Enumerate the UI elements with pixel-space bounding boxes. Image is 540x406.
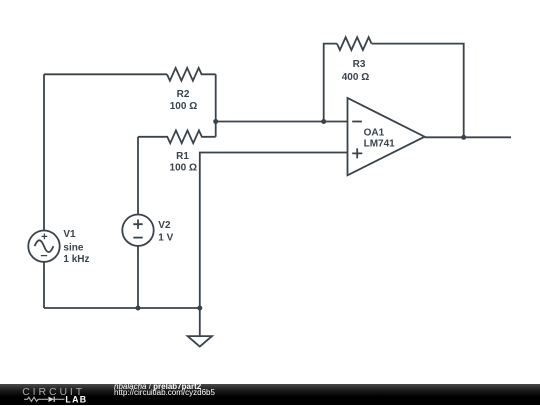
voltage source V2 (1 V) (122, 215, 173, 246)
wire: left rail top vertical (43, 74, 45, 230)
svg-text:OA1: OA1 (364, 127, 385, 138)
svg-text:LM741: LM741 (364, 138, 396, 149)
svg-text:1 kHz: 1 kHz (63, 254, 89, 265)
svg-text:R1: R1 (176, 151, 189, 162)
svg-text:V1: V1 (63, 229, 76, 240)
resistor R3 (337, 37, 372, 83)
wire: feedback top and right vertical to output (372, 44, 464, 138)
voltage source V1 (sine 1 kHz) (28, 229, 89, 265)
svg-text:1 V: 1 V (158, 232, 173, 243)
svg-text:R3: R3 (353, 59, 366, 70)
wire: bottom rail (44, 307, 200, 309)
node: output junction (461, 135, 466, 140)
node: feedback tap on inverting wire (321, 119, 326, 124)
footer text: url (114, 388, 215, 397)
footer text: author / title (114, 382, 201, 391)
resistor R1 (138, 130, 216, 173)
wire: top-left horizontal from left rail to R2 (44, 73, 167, 75)
wire: junction to op-amp inverting input (216, 121, 348, 123)
svg-text:400 Ω: 400 Ω (342, 72, 369, 83)
svg-text:R2: R2 (177, 89, 190, 100)
node: V2 bottom junction (136, 306, 141, 311)
ground (188, 308, 212, 347)
svg-text:100 Ω: 100 Ω (170, 101, 197, 112)
wire: op-amp output (425, 136, 511, 138)
node: ground junction (197, 306, 202, 311)
wire: non-inverting input to ground rail vertical (200, 153, 348, 309)
node: inverting input junction (213, 119, 218, 124)
svg-text:LAB: LAB (65, 394, 87, 404)
wire: V1 bottom vertical (43, 262, 45, 308)
wire: feedback left vertical up to R3 (324, 44, 337, 122)
op-amp OA1 LM741 (348, 98, 425, 175)
svg-text:100 Ω: 100 Ω (170, 163, 197, 174)
footer bar (0, 384, 540, 406)
wire: V2 top vertical (137, 137, 139, 215)
svg-text:sine: sine (63, 243, 83, 254)
CircuitLab logo (0, 384, 100, 406)
wire: V2 bottom vertical (137, 246, 139, 308)
svg-text:V2: V2 (158, 220, 171, 231)
wire: vertical joining R2 and R1 right ends (215, 74, 217, 137)
resistor R2 (167, 68, 216, 112)
